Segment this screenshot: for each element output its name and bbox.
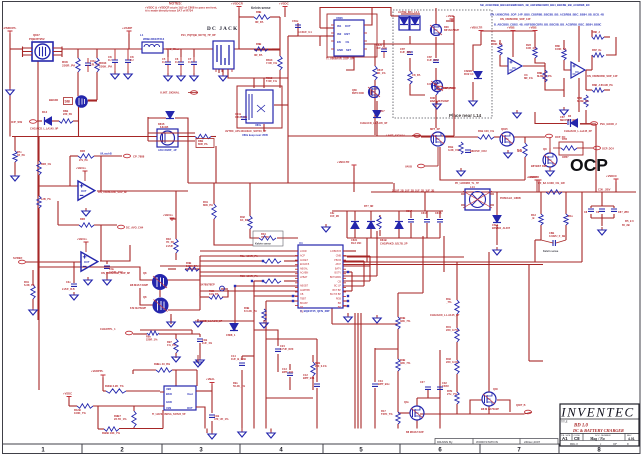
node +VSDCB xyxy=(527,176,542,183)
wire xyxy=(534,31,536,47)
svg-text:1UF_25V: 1UF_25V xyxy=(427,58,439,62)
wire xyxy=(613,206,615,208)
wire xyxy=(106,261,108,264)
wire xyxy=(170,314,172,324)
svg-text:B8YM4_JL407: B8YM4_JL407 xyxy=(492,226,511,230)
svg-text:BATV: BATV xyxy=(335,267,341,270)
wire xyxy=(591,55,593,70)
wire xyxy=(102,377,104,391)
svg-text:80R_PA: 80R_PA xyxy=(198,142,208,146)
svg-text:Kelvin sense: Kelvin sense xyxy=(255,242,271,246)
wire xyxy=(320,27,334,29)
connector ICP_PK88 xyxy=(437,86,457,90)
op-amp U3A xyxy=(508,58,533,80)
inductor L14 xyxy=(455,182,494,210)
svg-text:Q815: Q815 xyxy=(501,127,508,131)
svg-text:C81B: C81B xyxy=(421,212,428,215)
wire xyxy=(435,8,437,24)
svg-text:CHG/ACD_L.LA145_2P: CHG/ACD_L.LA145_2P xyxy=(430,313,459,317)
wire xyxy=(346,211,348,238)
wire xyxy=(443,87,454,89)
node +VSDC2 xyxy=(63,392,72,400)
svg-text:R3B: R3B xyxy=(80,218,85,221)
svg-text:DC & BATTERY CHARGER: DC & BATTERY CHARGER xyxy=(572,428,624,433)
svg-text:VAUB: VAUB xyxy=(405,166,412,169)
wire xyxy=(453,16,455,44)
diode D817 xyxy=(360,110,388,125)
wire xyxy=(265,301,267,429)
svg-text:VJN: VJN xyxy=(166,406,171,410)
svg-text:50.4K_1%: 50.4K_1% xyxy=(233,384,246,388)
ground xyxy=(103,277,111,285)
wire xyxy=(393,183,395,192)
wire xyxy=(163,48,213,50)
resistor R83l xyxy=(79,218,94,227)
node +VBULL2 xyxy=(77,237,89,252)
wire xyxy=(100,225,102,261)
resistor R87b xyxy=(592,48,604,57)
wire xyxy=(456,342,458,360)
svg-text:220K_PA: 220K_PA xyxy=(491,42,503,46)
svg-text:1UF_2B: 1UF_2B xyxy=(330,215,339,218)
wire xyxy=(279,17,281,56)
svg-text:220_0.1%: 220_0.1% xyxy=(446,360,459,364)
connector VAUB xyxy=(405,147,438,169)
svg-text:OCP_DC4: OCP_DC4 xyxy=(602,148,614,151)
place near L14 dotted box xyxy=(393,10,492,118)
resistor R90s xyxy=(105,384,126,393)
wire xyxy=(168,268,176,270)
wire xyxy=(289,364,291,370)
wire xyxy=(563,95,565,97)
capacitor C8d xyxy=(560,115,577,125)
capacitor C24 xyxy=(275,344,294,351)
transistor Q8B xyxy=(130,295,168,313)
wire xyxy=(175,334,177,339)
resistor R817 xyxy=(373,66,386,80)
svg-text:CHG/ACD_L.LA145_3P: CHG/ACD_L.LA145_3P xyxy=(360,122,388,125)
wire xyxy=(200,255,298,257)
svg-text:7K_PA: 7K_PA xyxy=(261,235,269,239)
label R5_20 xyxy=(625,219,634,223)
wire xyxy=(376,121,378,136)
svg-text:T27K_7%: T27K_7% xyxy=(381,412,393,416)
resistor R3B8 xyxy=(244,306,266,321)
wire xyxy=(211,136,216,138)
svg-text:BKLBP: BKLBP xyxy=(300,302,308,305)
svg-text:470_UF_1%: 470_UF_1% xyxy=(214,417,229,421)
wire xyxy=(535,112,567,124)
node +VBULTR xyxy=(0,0,1,1)
svg-text:0.1UF_1%: 0.1UF_1% xyxy=(235,116,248,119)
wire xyxy=(354,228,356,239)
label C30 xyxy=(598,188,611,192)
svg-text:65_2B: 65_2B xyxy=(622,223,630,227)
ground xyxy=(84,277,92,285)
wire xyxy=(397,371,399,412)
wire xyxy=(391,15,399,17)
wire xyxy=(601,218,603,226)
resistor R823 xyxy=(526,43,537,58)
svg-text:9K_1%: 9K_1% xyxy=(377,71,386,75)
svg-text:C8?_2BV: C8?_2BV xyxy=(618,211,629,214)
wire xyxy=(565,225,567,240)
wire xyxy=(374,348,376,382)
wire xyxy=(100,245,130,261)
wire xyxy=(235,285,298,287)
svg-text:0.7UF_R20: 0.7UF_R20 xyxy=(280,347,294,351)
svg-text:D12: D12 xyxy=(42,110,48,114)
wire xyxy=(250,229,259,238)
svg-text:ABGBT: ABGBT xyxy=(300,285,309,288)
resistor R88a xyxy=(592,30,604,39)
node +VBB xyxy=(507,26,516,34)
resistor R833 xyxy=(95,58,113,72)
resistor R8B1 xyxy=(254,10,270,24)
wire xyxy=(456,262,458,300)
wire xyxy=(591,217,614,219)
wire xyxy=(409,58,411,71)
ground xyxy=(124,71,132,79)
ground xyxy=(457,168,465,176)
capacitor C812 xyxy=(108,49,118,72)
capacitor C34 xyxy=(372,379,390,386)
svg-text:2: 2 xyxy=(120,448,124,454)
label B8M34A7D2P xyxy=(406,431,424,434)
svg-text:56: 56 xyxy=(517,148,523,153)
wire xyxy=(284,280,298,282)
svg-text:27x_7%: 27x_7% xyxy=(447,392,457,396)
svg-text:CF8U: CF8U xyxy=(442,384,449,388)
capacitor C817 xyxy=(406,210,414,222)
svg-text:4.01: 4.01 xyxy=(628,437,635,441)
capacitor C8a xyxy=(376,44,387,58)
wire xyxy=(14,137,16,151)
label CHG/ACD xyxy=(195,320,223,323)
svg-text:AB P: AB P xyxy=(336,263,342,266)
svg-text:OCP_DC: OCP_DC xyxy=(555,136,566,139)
svg-text:AAV4 D28P_.1P: AAV4 D28P_.1P xyxy=(158,149,177,152)
diode D81C xyxy=(380,222,408,246)
wire xyxy=(514,136,545,138)
wire xyxy=(277,237,298,239)
wire xyxy=(239,48,254,50)
wire xyxy=(12,136,195,138)
wire xyxy=(545,63,564,90)
svg-text:OCP: OCP xyxy=(570,155,608,175)
svg-text:+VBB: +VBB xyxy=(529,26,537,30)
svg-text:AAJ_Mbat: AAJ_Mbat xyxy=(166,47,179,51)
wire xyxy=(196,390,212,392)
wire xyxy=(312,355,314,362)
wire xyxy=(270,429,272,432)
wire xyxy=(590,214,592,218)
wire xyxy=(343,265,370,267)
diode D81B xyxy=(367,222,387,243)
node +VSDC top xyxy=(279,2,290,10)
svg-text:7K_PA: 7K_PA xyxy=(166,240,174,244)
svg-text:0.022U_F_3B: 0.022U_F_3B xyxy=(549,234,565,238)
connector ICP_SW xyxy=(11,120,37,124)
ic U801 xyxy=(225,86,282,137)
svg-text:_B: _B xyxy=(530,216,534,220)
label R5_2B xyxy=(622,223,630,227)
resistor R01 xyxy=(446,325,459,342)
wire xyxy=(585,70,587,90)
wire xyxy=(78,121,80,137)
svg-text:+VBULTR: +VBULTR xyxy=(470,26,482,30)
svg-text:CMB: CMB xyxy=(336,255,342,258)
ground xyxy=(6,87,14,95)
svg-text:C8: C8 xyxy=(584,211,588,214)
ground xyxy=(560,107,568,115)
svg-text:R2B: R2B xyxy=(80,150,85,153)
svg-text:C81x: C81x xyxy=(292,19,299,23)
svg-text:B8 M3A7 D32P: B8 M3A7 D32P xyxy=(130,283,148,287)
svg-text:R5_2.0: R5_2.0 xyxy=(625,219,634,223)
wire xyxy=(52,120,59,122)
wire xyxy=(228,69,288,78)
resistor R880 xyxy=(555,44,567,60)
svg-text:AAT8B_8D1_L3.4: AAT8B_8D1_L3.4 xyxy=(398,10,420,14)
svg-text:D81B: D81B xyxy=(380,238,387,242)
wire xyxy=(277,354,279,372)
svg-text:32K_7%: 32K_7% xyxy=(400,319,411,323)
wire xyxy=(172,369,197,371)
svg-text:PQB45T252: PQB45T252 xyxy=(29,37,45,41)
resistor R81g xyxy=(577,95,589,107)
wire xyxy=(58,224,79,226)
wire xyxy=(398,211,400,221)
resistor R56 xyxy=(517,143,527,157)
svg-text:U3: U3 xyxy=(512,66,516,70)
wire xyxy=(148,132,195,134)
ground xyxy=(11,173,19,181)
wire xyxy=(564,60,571,70)
wire xyxy=(234,48,280,50)
diode D3r xyxy=(564,119,617,133)
connector OCP_DC xyxy=(546,134,566,139)
svg-text:AVTRC_APL4311/2AC_SOT23_8P: AVTRC_APL4311/2AC_SOT23_8P xyxy=(225,129,266,133)
wire xyxy=(376,101,378,111)
wire xyxy=(580,123,596,125)
wire xyxy=(199,334,201,337)
resistor R9y xyxy=(311,361,328,376)
svg-text:R90B 2.2K_7%: R90B 2.2K_7% xyxy=(105,384,124,388)
transistor Q807 xyxy=(23,33,67,61)
wire xyxy=(410,223,412,238)
wire xyxy=(343,255,370,257)
wire xyxy=(343,305,348,307)
connector CP_7888 xyxy=(100,153,145,159)
svg-text:BKTGBPA: BKTGBPA xyxy=(330,276,342,279)
svg-text:+VBB: +VBB xyxy=(507,26,515,30)
wire xyxy=(168,333,176,335)
label PCBE xyxy=(500,197,521,200)
wire xyxy=(100,156,102,191)
wire xyxy=(234,286,236,330)
wire xyxy=(69,405,77,407)
svg-text:RGB: RGB xyxy=(336,298,342,301)
ground xyxy=(504,150,512,158)
resistor R3y1 xyxy=(445,297,459,314)
wire xyxy=(266,300,298,302)
wire xyxy=(481,30,535,32)
wire xyxy=(133,369,156,371)
node +VBULTR xyxy=(470,26,484,34)
svg-text:Vout: Vout xyxy=(187,392,193,396)
ground xyxy=(260,320,268,328)
wire xyxy=(175,370,177,390)
wire xyxy=(370,211,372,221)
capacitor C8g2 xyxy=(596,209,605,214)
wire xyxy=(472,55,474,71)
wire xyxy=(200,290,298,292)
wire xyxy=(175,118,188,137)
wire xyxy=(496,192,498,216)
wire xyxy=(193,49,195,57)
ground xyxy=(167,319,175,327)
svg-text:CHG/PAKD_8JL7B_2P: CHG/PAKD_8JL7B_2P xyxy=(380,242,408,246)
wire xyxy=(401,13,420,15)
svg-text:Q8: Q8 xyxy=(143,271,147,275)
title block INVENTEC xyxy=(560,404,639,446)
wire xyxy=(140,329,192,331)
wire xyxy=(421,136,431,138)
wire xyxy=(535,58,545,63)
wire xyxy=(38,137,40,161)
svg-text:TBBT: TBBT xyxy=(300,298,307,301)
wire xyxy=(263,124,265,131)
svg-text:WORKSTATION: WORKSTATION xyxy=(476,440,498,444)
wire xyxy=(397,424,399,429)
capacitor C81b xyxy=(235,113,248,119)
wire xyxy=(456,374,458,392)
svg-text:R1B 100_1%: R1B 100_1% xyxy=(478,129,495,133)
resistor R1x xyxy=(564,214,574,225)
svg-text:+VSDCR: +VSDCR xyxy=(528,175,539,179)
svg-text:27x_PA: 27x_PA xyxy=(79,159,88,162)
no-connect squares xyxy=(234,260,349,307)
wire xyxy=(370,228,372,239)
svg-text:A RBCB B: A RBCB B xyxy=(330,250,341,253)
wire xyxy=(480,31,482,45)
resistor R08b xyxy=(396,358,411,371)
capacitor C8b xyxy=(400,47,413,54)
ground xyxy=(373,315,381,323)
transistor Q8A xyxy=(130,271,168,290)
wire xyxy=(435,44,437,58)
wire xyxy=(424,192,426,211)
resistor R35 xyxy=(240,254,281,263)
ground xyxy=(433,101,441,109)
svg-text:R3x 100R_PA: R3x 100R_PA xyxy=(240,254,258,258)
wire xyxy=(374,44,376,66)
wire xyxy=(346,56,354,70)
wire xyxy=(26,261,81,263)
svg-text:1U: 1U xyxy=(188,60,191,64)
svg-text:Kelvin sense: Kelvin sense xyxy=(251,6,271,10)
wire xyxy=(188,182,393,184)
wire xyxy=(78,107,80,121)
wire xyxy=(284,260,298,262)
ground xyxy=(70,292,78,300)
svg-text:3: 3 xyxy=(199,448,203,454)
svg-text:220R_PA: 220R_PA xyxy=(62,64,76,68)
capacitor C14 xyxy=(231,354,246,365)
wire xyxy=(343,271,352,273)
ground xyxy=(194,355,202,367)
node +VBB xyxy=(446,14,455,22)
OCP label xyxy=(570,155,608,175)
svg-text:8STO D08: 8STO D08 xyxy=(352,92,364,95)
wire xyxy=(187,137,189,184)
wire xyxy=(241,356,243,360)
connector PWRGOOD xyxy=(580,122,598,126)
wire xyxy=(453,44,455,88)
resistor R83e xyxy=(209,289,223,299)
node +VSDCR2 xyxy=(606,174,619,182)
wire xyxy=(241,370,243,429)
svg-text:100K_PA: 100K_PA xyxy=(186,264,198,268)
wire xyxy=(103,390,106,392)
ground xyxy=(164,73,172,81)
wire xyxy=(422,236,424,258)
wire xyxy=(287,78,289,183)
wire xyxy=(222,69,224,73)
wire xyxy=(221,288,228,290)
svg-text:BB: BB xyxy=(338,306,342,309)
ground xyxy=(493,247,501,255)
svg-text:R8B: R8B xyxy=(256,10,261,14)
svg-text:+VBULL: +VBULL xyxy=(163,213,174,217)
wire xyxy=(94,224,117,226)
diode D830 xyxy=(351,222,362,246)
capacitor C83k xyxy=(541,231,566,253)
svg-text:220K_PA: 220K_PA xyxy=(99,65,113,69)
wire xyxy=(420,413,524,415)
wire xyxy=(601,214,603,218)
svg-text:8R_1%: 8R_1% xyxy=(524,76,533,80)
svg-text:R92B 10K_7%: R92B 10K_7% xyxy=(102,431,121,435)
svg-text:+VSDCPL: +VSDCPL xyxy=(2,26,16,30)
wire xyxy=(595,124,597,192)
svg-text:3.3K_1%: 3.3K_1% xyxy=(448,148,460,152)
wire xyxy=(606,37,616,55)
svg-text:DC JACK: DC JACK xyxy=(207,26,238,32)
wire xyxy=(332,264,543,266)
svg-text:6.3K_PA: 6.3K_PA xyxy=(24,283,35,287)
resistor R7r xyxy=(364,205,381,229)
wire xyxy=(199,343,201,358)
svg-text:BPP_B11: BPP_B11 xyxy=(303,376,315,380)
wire xyxy=(272,48,280,50)
resistor R83d xyxy=(185,261,199,271)
connector DC_AVO_CH4 xyxy=(118,225,144,229)
wire xyxy=(563,78,565,95)
wire xyxy=(320,8,391,29)
ground xyxy=(513,110,521,118)
wire xyxy=(200,275,298,277)
svg-text:10R_4%: 10R_4% xyxy=(526,46,537,50)
wire xyxy=(374,388,376,429)
svg-text:80K_PA: 80K_PA xyxy=(203,203,213,207)
node +VBB/TR2 xyxy=(337,160,357,168)
svg-text:U3: U3 xyxy=(575,70,579,74)
connector SVREF xyxy=(13,256,26,264)
wire xyxy=(343,300,348,302)
wire xyxy=(32,270,34,285)
